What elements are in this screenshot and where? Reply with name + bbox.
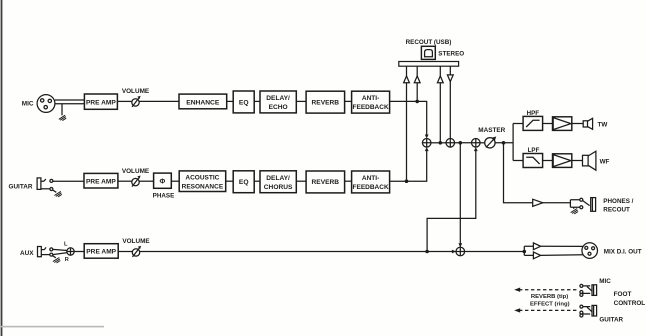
arrow up (mix to bus)	[437, 76, 443, 83]
wire preamp to volume (guitar)	[118, 180, 132, 182]
node A sum mic+guitar	[422, 139, 431, 148]
block REVERB (MIC)	[306, 91, 345, 113]
node B sum +usb	[446, 139, 455, 148]
node D.I. sum	[456, 247, 465, 256]
wire to EQ (guitar)	[226, 180, 234, 182]
connector guitar jack	[37, 178, 56, 192]
wire buffer to phones jack	[543, 202, 571, 204]
block PHASE	[153, 173, 175, 200]
wire mix to recout bus	[439, 66, 441, 143]
svg-text:MIX D.I. OUT: MIX D.I. OUT	[604, 249, 642, 256]
block EQ (guitar)	[233, 171, 254, 193]
connector foot mic jack	[580, 284, 597, 296]
wire node A to node B	[431, 142, 446, 144]
pot MASTER	[478, 127, 505, 148]
block REVERB (guitar)	[306, 171, 345, 193]
arrow into node C from bottom	[474, 147, 478, 151]
wire MIC output to node A	[390, 101, 427, 134]
label LPF	[528, 147, 540, 154]
ground guitar jack	[54, 191, 61, 196]
wire to ANTI-FEEDBACK (guitar)	[345, 180, 352, 182]
svg-text:GUITAR: GUITAR	[8, 183, 32, 190]
connector XLR MIX D.I. OUT	[582, 243, 598, 259]
wire guitar to recout bus	[406, 66, 408, 181]
wire crossover split	[513, 124, 523, 161]
svg-text:EQ: EQ	[239, 99, 249, 106]
svg-text:RESONANCE: RESONANCE	[182, 183, 224, 190]
label WF	[600, 159, 610, 166]
speaker TW	[583, 118, 592, 129]
block PRE AMP (AUX)	[84, 244, 118, 259]
svg-text:WF: WF	[600, 159, 610, 166]
svg-text:STEREO: STEREO	[438, 50, 464, 57]
wire PHASE to ACOUSTIC RESONANCE	[171, 180, 179, 182]
pot VOLUME (guitar)	[122, 168, 150, 187]
label R	[65, 257, 69, 263]
block DELAY/CHORUS	[260, 171, 296, 193]
svg-text:ANTI-: ANTI-	[362, 175, 379, 182]
block PRE AMP (MIC)	[84, 94, 117, 109]
junction MIC recout tap	[415, 100, 419, 104]
svg-text:VOLUME: VOLUME	[122, 88, 150, 95]
bus bar RECOUT	[399, 62, 459, 67]
wire preamp to volume (MIC)	[117, 100, 131, 102]
wire drivers to XLR out	[541, 246, 584, 255]
wire amp to TW	[572, 123, 583, 125]
wire aux long run to D.I. sum	[140, 251, 456, 253]
connector aux stereo jack	[38, 247, 56, 258]
node C sum +aux	[472, 139, 481, 148]
svg-text:PHASE: PHASE	[153, 193, 175, 200]
wire down to D.I. sum	[459, 143, 461, 247]
wire node C to MASTER	[480, 142, 485, 144]
wire sum to PRE AMP (aux)	[74, 251, 84, 253]
block HPF	[523, 116, 543, 130]
wire shield drop	[61, 104, 63, 116]
svg-text:FOOT: FOOT	[614, 291, 632, 298]
label STEREO	[438, 50, 464, 57]
junction mix tap on node wire	[439, 141, 443, 145]
label GUITAR input	[8, 183, 32, 190]
wire volume to PHASE	[139, 180, 153, 182]
amp D.I. hot driver	[533, 243, 540, 250]
svg-text:DELAY/: DELAY/	[266, 175, 290, 182]
wire amp to WF	[572, 160, 583, 162]
amp D.I. cold driver	[533, 252, 540, 259]
label EFFECT (ring)	[530, 301, 570, 307]
label REVERB (tip)	[531, 294, 568, 300]
wire ENHANCE to EQ	[227, 100, 234, 102]
wire EQ to DELAY/ECHO	[254, 100, 260, 102]
speaker WF	[583, 151, 596, 170]
svg-text:RECOUT (USB): RECOUT (USB)	[406, 39, 452, 46]
svg-text:TW: TW	[598, 122, 608, 129]
wire MASTER to crossover split	[495, 142, 513, 144]
label RECOUT (USB)	[406, 39, 452, 46]
svg-text:REVERB (tip): REVERB (tip)	[531, 294, 568, 300]
wire to REVERB (guitar)	[296, 180, 306, 182]
svg-text:REVERB: REVERB	[312, 179, 340, 186]
ground phones jack	[573, 207, 575, 209]
svg-text:PRE AMP: PRE AMP	[86, 249, 116, 256]
arrow into node A from top	[425, 135, 429, 139]
arrow effect footswitch	[514, 308, 520, 312]
svg-text:CHORUS: CHORUS	[264, 184, 293, 191]
wire D.I. sum to balanced driver	[465, 251, 525, 253]
svg-text:R: R	[65, 257, 69, 263]
svg-text:MASTER: MASTER	[478, 127, 505, 134]
label FOOT CONTROL	[614, 291, 646, 307]
svg-text:PHONES /: PHONES /	[603, 198, 633, 205]
wire LPF to amp	[543, 160, 553, 162]
arrow up (guitar to bus)	[404, 76, 410, 83]
wire REVERB to ANTI-FEEDBACK	[345, 100, 352, 102]
svg-text:VOLUME: VOLUME	[122, 168, 150, 175]
svg-text:FEEDBACK: FEEDBACK	[353, 184, 389, 191]
wire mic to recout bus	[416, 66, 418, 101]
svg-text:GUITAR: GUITAR	[599, 317, 623, 324]
label GUITAR (foot)	[599, 317, 623, 324]
wire phones feed	[504, 143, 533, 203]
pot VOLUME (AUX)	[122, 238, 150, 257]
block ACOUSTIC RESONANCE	[179, 171, 226, 192]
wire XLR to PRE AMP (balanced pair)	[55, 100, 85, 104]
wire node B to node C	[455, 142, 472, 144]
wire volume to ENHANCE	[139, 100, 179, 102]
label TW	[598, 122, 608, 129]
junction phones tap	[502, 141, 506, 145]
arrow into D.I. sum from top	[458, 243, 462, 247]
svg-text:RECOUT: RECOUT	[603, 206, 630, 213]
svg-text:ANTI-: ANTI-	[362, 95, 379, 102]
junction guitar recout tap	[405, 179, 409, 183]
junction aux speaker branch	[425, 250, 429, 254]
page left border line	[1, 0, 3, 336]
block EQ (MIC)	[233, 91, 254, 113]
connector USB port icon	[421, 46, 435, 59]
svg-text:AUX: AUX	[20, 250, 34, 257]
wire usb return down to node B	[449, 66, 451, 138]
svg-text:MIC: MIC	[599, 278, 611, 285]
svg-text:REVERB: REVERB	[312, 99, 340, 106]
node aux input sum	[67, 248, 74, 255]
amp tweeter	[553, 117, 572, 131]
label L	[64, 241, 68, 247]
wire balanced split bar	[524, 246, 533, 255]
block PRE AMP (guitar)	[84, 173, 118, 188]
block LPF	[523, 154, 543, 168]
pot VOLUME (MIC)	[122, 88, 150, 107]
wire DELAY/ECHO to REVERB	[296, 100, 306, 102]
svg-text:Φ: Φ	[160, 179, 166, 186]
wire jack to PRE AMP (guitar)	[53, 180, 84, 182]
label MIX D.I. OUT	[604, 249, 642, 256]
label HPF	[527, 110, 540, 117]
label MIC (foot)	[599, 278, 611, 285]
ground MIC input	[59, 115, 66, 120]
svg-text:FEEDBACK: FEEDBACK	[353, 104, 389, 111]
arrow reverb footswitch	[514, 288, 520, 292]
connector foot guitar jack	[580, 305, 597, 317]
amp phones buffer	[533, 199, 543, 206]
wire preamp to volume (aux)	[118, 251, 132, 253]
wire L/R into sum	[53, 249, 68, 254]
svg-text:ACOUSTIC: ACOUSTIC	[185, 175, 219, 182]
ground aux jack	[53, 258, 60, 263]
svg-text:MIC: MIC	[22, 101, 34, 108]
block DELAY/ECHO	[260, 91, 296, 113]
label AUX input	[20, 250, 34, 257]
wire guitar output to node A	[390, 151, 427, 182]
arrow up (mic to bus)	[414, 76, 420, 83]
block ANTI-FEEDBACK (MIC)	[352, 91, 390, 113]
svg-text:EFFECT (ring): EFFECT (ring)	[530, 301, 570, 307]
svg-text:ECHO: ECHO	[269, 104, 288, 111]
wire HPF to amp	[543, 123, 553, 125]
wire effect footswitch (dashed)	[519, 309, 579, 311]
arrow down (usb return)	[447, 75, 453, 82]
wire reverb footswitch (dashed)	[519, 289, 579, 291]
junction D.I. branch	[459, 141, 463, 145]
svg-text:EQ: EQ	[239, 179, 249, 186]
connector phones jack	[570, 198, 595, 212]
svg-text:ENHANCE: ENHANCE	[186, 99, 220, 106]
block ENHANCE	[179, 94, 227, 109]
junction balanced split	[523, 250, 527, 254]
svg-text:PRE AMP: PRE AMP	[86, 99, 116, 106]
label MIC input	[22, 101, 34, 108]
svg-text:DELAY/: DELAY/	[266, 95, 290, 102]
svg-text:VOLUME: VOLUME	[122, 238, 150, 245]
arrow into node A from bottom	[425, 147, 429, 151]
label PHONES / RECOUT	[603, 198, 633, 213]
wire aux branch up to node C	[427, 151, 476, 252]
svg-text:CONTROL: CONTROL	[614, 300, 646, 307]
wire EQ to DELAY/CHORUS	[254, 180, 260, 182]
amp woofer	[553, 154, 572, 168]
connector XLR MIC input	[37, 95, 55, 113]
svg-text:PRE AMP: PRE AMP	[86, 178, 116, 185]
arrow into D.I. sum from left	[452, 250, 456, 254]
page bottom-left rule	[0, 326, 104, 328]
svg-text:L: L	[64, 241, 68, 247]
block ANTI-FEEDBACK (guitar)	[352, 171, 390, 193]
